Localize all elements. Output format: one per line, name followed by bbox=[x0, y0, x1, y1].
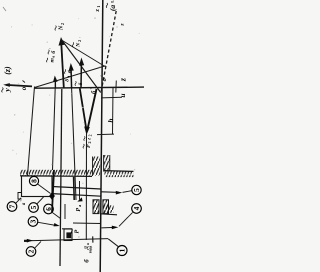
small z right of dashes bbox=[120, 23, 126, 27]
svg-text:(z): (z) bbox=[3, 66, 12, 75]
leader 1 bbox=[108, 239, 118, 247]
circled 4 right bbox=[132, 204, 142, 214]
guide line 2 bbox=[53, 88, 56, 170]
dark-top rect right of rod bbox=[103, 200, 109, 214]
svg-text:г: г bbox=[86, 138, 92, 140]
arrowhead down at V tip bbox=[84, 127, 90, 136]
label b-deg left of O' bbox=[89, 87, 98, 93]
svg-text:2: 2 bbox=[89, 134, 93, 136]
svg-text:P: P bbox=[75, 229, 81, 233]
svg-text:4: 4 bbox=[132, 206, 141, 210]
svg-text:P: P bbox=[76, 208, 82, 212]
wire: guide line continues down from x=71 bbox=[72, 89, 76, 201]
heavy vertical x=52 bbox=[52, 170, 54, 212]
svg-text:5: 5 bbox=[29, 205, 38, 209]
svg-text:2: 2 bbox=[26, 249, 35, 253]
line y=213 right bbox=[101, 214, 117, 215]
label z on axis bbox=[118, 77, 127, 82]
extra vertical x=65 upper bbox=[64, 204, 66, 219]
ground hatch band: right part bbox=[104, 170, 134, 173]
label b bottom bbox=[83, 259, 90, 263]
leader 3 with arrow bbox=[38, 222, 57, 225]
right wall hatched bbox=[104, 155, 110, 172]
label z1 at top left of rod bbox=[95, 6, 101, 13]
svg-text:2: 2 bbox=[87, 142, 92, 144]
word voda vertical bbox=[88, 246, 92, 254]
svg-text:1: 1 bbox=[96, 6, 101, 8]
heavy V: left arm bbox=[80, 89, 87, 132]
svg-text:y: y bbox=[2, 88, 11, 93]
force label ba bbox=[65, 67, 74, 74]
wire: oblique line from origin O to dashed line bbox=[35, 66, 106, 88]
bottom tick of h bbox=[97, 133, 114, 136]
force label N'2 bbox=[73, 40, 82, 48]
rod line below V tip bbox=[85, 134, 87, 241]
left wall hatched gland bbox=[93, 157, 101, 176]
small black pointer blob bbox=[77, 197, 82, 201]
svg-text:δ: δ bbox=[65, 79, 71, 82]
svg-text:8: 8 bbox=[29, 179, 38, 183]
label O origin bbox=[20, 86, 28, 90]
force label d tilde bbox=[75, 81, 84, 85]
circled 7 bbox=[7, 202, 17, 212]
label O' bbox=[99, 75, 108, 81]
wire: main vertical rod axis, full height bbox=[100, 0, 103, 272]
line apex to O' bbox=[61, 39, 101, 93]
svg-text:2: 2 bbox=[77, 40, 82, 42]
wire: dashed line from top right to point O' bbox=[101, 11, 116, 93]
leader 2 bbox=[35, 241, 41, 248]
line apex shallow to dashed junction bbox=[62, 40, 106, 67]
label y tilde bbox=[2, 88, 12, 93]
valve box bottom: connecting line bbox=[62, 228, 72, 230]
ladder line 2 bbox=[52, 194, 101, 197]
circled 5b (second left column) bbox=[29, 203, 39, 213]
tick crossing at x=92.6 bbox=[92, 236, 94, 242]
svg-text:o: o bbox=[20, 86, 28, 90]
long bottom line with start arrow bbox=[24, 239, 108, 241]
tick crossing axis at x=116 bbox=[115, 81, 118, 93]
svg-text:6: 6 bbox=[44, 207, 53, 211]
tiny a-degree label bbox=[20, 199, 27, 205]
circled 8 inside box bbox=[29, 176, 38, 185]
dark-top rect left of rod bbox=[93, 200, 99, 214]
box B bbox=[64, 229, 72, 241]
circled 5 right bbox=[132, 185, 141, 194]
callout line with right arrow (y=196) bbox=[102, 191, 120, 194]
svg-text:h: h bbox=[106, 118, 115, 122]
wire: y-axis arrow pointing left bbox=[6, 85, 32, 87]
label (z) bbox=[3, 66, 12, 75]
svg-text:a: a bbox=[51, 56, 56, 58]
label P2 under V tip bbox=[84, 134, 93, 140]
circled 1 bbox=[117, 246, 127, 256]
svg-text:б: б bbox=[50, 51, 57, 54]
svg-text:3: 3 bbox=[28, 219, 37, 223]
circled 6 bbox=[44, 204, 54, 214]
label (a) top right bbox=[106, 0, 117, 11]
circled 2 bbox=[26, 247, 36, 257]
scan speckle bbox=[11, 17, 140, 237]
leader to circled 5 bbox=[123, 191, 133, 193]
box A (cylinder head) bbox=[22, 176, 53, 197]
vector arrow S (x=81) bbox=[80, 62, 82, 89]
dark square inside box B bbox=[66, 232, 71, 238]
leader from circled 8 to valve bbox=[38, 184, 51, 194]
svg-text:вода: вода bbox=[88, 246, 92, 254]
tab on box A bottom-left bbox=[18, 193, 22, 200]
leader 7 bbox=[16, 198, 21, 203]
label Da bbox=[84, 243, 90, 250]
ladder vertical x=79.5 bbox=[79, 181, 81, 200]
heavy V: right arm from O' bbox=[87, 89, 97, 132]
dimension line for h bbox=[112, 88, 115, 134]
guide line from origin down bbox=[28, 87, 35, 176]
valve black diamond bbox=[49, 192, 55, 200]
ladder vertical x=74 thick bbox=[73, 177, 76, 200]
ladder line 1 bbox=[52, 187, 101, 190]
label u below axis bbox=[118, 93, 127, 97]
callout line with right arrow (y=227.5) bbox=[102, 226, 116, 229]
stray scan mark top-left bbox=[3, 7, 6, 11]
leader bbox=[37, 197, 44, 204]
vector arrow T (x=71) bbox=[70, 67, 73, 89]
label Pa bbox=[76, 204, 82, 212]
svg-text:2: 2 bbox=[60, 23, 65, 25]
leader to circled 4 bbox=[119, 212, 133, 226]
svg-text:7: 7 bbox=[7, 204, 16, 208]
svg-text:a: a bbox=[66, 76, 71, 78]
svg-text:5: 5 bbox=[132, 188, 141, 192]
label N2 above apex bbox=[55, 23, 65, 31]
svg-text:1: 1 bbox=[117, 248, 126, 252]
tick above origin label bbox=[23, 81, 26, 83]
svg-text:′: ′ bbox=[49, 48, 54, 49]
label P lower bbox=[71, 229, 80, 234]
small hatched stub right bbox=[103, 205, 114, 213]
svg-text:a: a bbox=[86, 243, 90, 245]
tick below O' bbox=[101, 96, 122, 99]
guide line 3 (valve stem), long bbox=[60, 89, 62, 266]
svg-text:′: ′ bbox=[99, 75, 104, 76]
node: axis line z (long horizontal through O') bbox=[35, 87, 145, 88]
svg-text:δ: δ bbox=[78, 82, 84, 85]
force label da bbox=[65, 76, 71, 82]
line y=223 middle bbox=[73, 222, 101, 225]
force label T' bbox=[48, 48, 57, 54]
svg-text:a: a bbox=[69, 67, 74, 69]
label h bbox=[106, 118, 115, 122]
ground hatch band: left part bbox=[20, 170, 92, 176]
vector N2 (apex arrow up) bbox=[61, 42, 64, 88]
circled 3 bbox=[28, 217, 38, 227]
svg-text:ʟ: ʟ bbox=[110, 0, 115, 3]
svg-text:б: б bbox=[67, 70, 74, 73]
force label Ta bbox=[47, 56, 56, 63]
leader 6 bbox=[52, 212, 61, 218]
svg-text:(a: (a bbox=[108, 5, 117, 11]
svg-text:N: N bbox=[59, 25, 65, 31]
